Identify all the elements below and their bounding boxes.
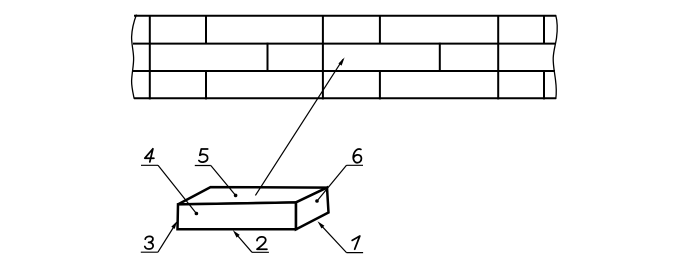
label 1 [352,236,360,249]
wall break line left (wavy) [132,15,137,99]
label 3 leader with arrow [158,227,174,253]
wall joint x380 bottom course [379,70,381,100]
wall joint x206 bottom course [205,70,207,100]
label 4 leader [158,165,196,213]
label 1 underline [347,252,364,254]
label 5 [199,149,208,162]
wall joint x544 bottom course [543,70,545,100]
label 5 underline [195,165,211,167]
label 4 [145,149,154,162]
label 3 underline [141,251,158,253]
wall course line top [134,15,556,17]
wall face joint left [149,15,151,100]
wall joint x440 middle course [439,43,441,73]
label 5 leader [211,166,236,196]
wall break line right (wavy) [553,15,557,99]
label 6 underline [347,164,364,166]
wall joint x267.5 middle course [267,43,269,73]
label 4 underline [141,164,158,166]
label 2 leader with arrow [237,235,252,252]
brick front face [178,202,297,229]
label 6 leader [317,165,347,201]
wall course line 3 [133,70,555,72]
label 6 [353,149,361,163]
wall joint x380 top course [379,15,381,45]
wall course line bottom [134,97,556,99]
wall joint x544 top course [543,15,545,45]
wall joint x323 all courses [322,15,324,100]
wall joint x206 top course [205,15,207,45]
brick right side face [296,188,329,230]
label 3 [145,236,153,249]
label 2 underline [252,251,269,253]
wall course line 2 [133,43,555,45]
brick top face [178,187,327,204]
label 1 leader with arrow [322,226,347,252]
wall joint x498 all courses [497,15,499,100]
label 2 [257,237,267,249]
long arrow from brick to wall [255,59,343,195]
